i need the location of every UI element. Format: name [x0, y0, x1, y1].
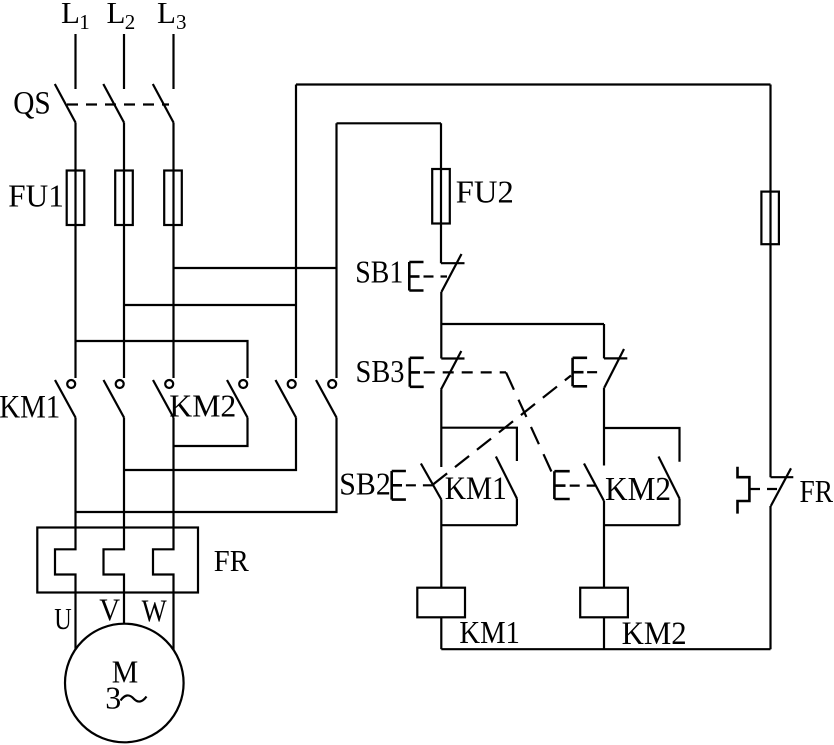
svg-text:V: V [99, 592, 120, 628]
svg-text:W: W [142, 594, 167, 629]
svg-text:KM1: KM1 [0, 389, 60, 425]
contactor KM2 main contact 1 [227, 380, 248, 418]
svg-text:FR: FR [800, 474, 834, 509]
wire L3 drop to QS [172, 34, 174, 89]
svg-text:KM2: KM2 [169, 387, 236, 423]
node V label [99, 592, 120, 628]
FR heater element W [153, 418, 174, 651]
svg-text:1: 1 [79, 10, 90, 34]
motor M circle [65, 624, 184, 743]
fuse FU2 [440, 123, 442, 263]
fuse FU1 element 3 [164, 171, 182, 226]
FU2 label [456, 174, 514, 209]
KM2 coil label [622, 616, 687, 652]
wire L2 tap to KM2 contact 2 (y305) [124, 304, 296, 306]
svg-text:SB3: SB3 [356, 353, 405, 389]
svg-text:3: 3 [176, 10, 187, 34]
wire SB3NO to coil KM2 [603, 501, 605, 588]
pushbutton SB2 NO contact [392, 464, 442, 500]
svg-text:2: 2 [125, 10, 136, 34]
coil KM2 [580, 588, 628, 618]
wire coil KM1 to bottom rail [440, 617, 442, 649]
wire control rail top (y84.5) [296, 83, 771, 85]
wire L1 tap to KM2 contact 1 (y341) [76, 341, 248, 378]
wire L3 QS to KM1 contact [172, 123, 174, 379]
SB2 linkage diagonal dashed [433, 376, 571, 485]
KM2 main label [169, 387, 236, 423]
node W label [142, 594, 167, 629]
KM1 aux label [445, 471, 507, 507]
svg-text:L: L [107, 0, 126, 30]
svg-text:KM1: KM1 [445, 471, 507, 507]
contactor KM2 main contact 2 [276, 380, 297, 418]
switch QS pole 3 blade [153, 84, 174, 123]
fuse FU1 element 2 [115, 171, 133, 226]
wire SB3 to SB2 (KM1 branch) [440, 390, 442, 468]
FR contact label [800, 474, 834, 509]
svg-text:KM2: KM2 [622, 616, 687, 652]
wire coil KM2 to bottom rail [603, 617, 605, 649]
svg-text:L: L [61, 0, 80, 30]
wire KM2 contact 1 output to W (y446) [174, 418, 248, 447]
SB1 label [355, 254, 403, 290]
pushbutton SB3 NO contact [554, 464, 604, 502]
wire L1 drop to QS [74, 34, 76, 89]
node L3 [157, 0, 187, 34]
wire control tap (y123.3) [337, 122, 442, 124]
SB2 label [339, 465, 391, 501]
wire SB1 to SB3 [440, 292, 442, 359]
pushbutton SB2 NC contact (right top) [573, 324, 628, 388]
svg-text:L: L [157, 0, 176, 30]
node U label [54, 602, 71, 637]
FR heater element V [104, 418, 125, 625]
relay FR NC contact [738, 467, 794, 514]
switch QS pole 1 blade [55, 84, 76, 123]
QS label [13, 86, 51, 122]
node L2 [107, 0, 136, 34]
KM1 coil label [459, 615, 520, 650]
thermal relay FR heater box [37, 528, 198, 593]
switch QS pole 2 blade [103, 84, 124, 123]
wire SB2NC to SB3NO (KM2 branch) [603, 388, 605, 466]
fuse FU1 element 1 [67, 171, 85, 226]
FR heater element U [55, 418, 76, 650]
node L1 [61, 0, 90, 34]
svg-text:KM1: KM1 [459, 615, 520, 650]
contactor KM1 main contact 1 [55, 380, 76, 418]
SB3 linkage diagonal dashed [506, 372, 553, 475]
KM2 auxiliary contact branch [604, 428, 680, 525]
pushbutton SB3 NC contact [410, 351, 506, 390]
wire KM2 contact 3 feeder [335, 123, 337, 378]
svg-text:KM2: KM2 [605, 471, 671, 508]
KM2 aux label [605, 471, 671, 508]
wire FR to bottom rail [769, 506, 771, 649]
svg-text:SB2: SB2 [339, 465, 391, 501]
svg-text:SB1: SB1 [355, 254, 403, 290]
wire SB2 to coil KM1 [440, 500, 442, 588]
right control rail [769, 85, 771, 478]
KM1 main label [0, 389, 60, 425]
svg-text:U: U [54, 602, 71, 637]
FU1 label [8, 178, 64, 214]
contactor KM1 main contact 2 [104, 380, 125, 418]
wire KM2 contact 2 output to V (y470) [124, 418, 296, 471]
wire L1 QS to KM1 contact [74, 123, 76, 379]
FR main label [214, 543, 249, 578]
svg-text:QS: QS [13, 86, 51, 122]
wire KM2 contact 2 feeder [295, 85, 297, 379]
svg-text:3: 3 [105, 680, 121, 716]
svg-text:FU1: FU1 [8, 178, 64, 214]
wire bottom rail [441, 648, 770, 650]
svg-text:FR: FR [214, 543, 249, 578]
fuse on right rail [761, 192, 779, 245]
contactor KM2 main contact 3 [316, 380, 337, 418]
KM1 auxiliary contact branch [441, 428, 517, 526]
SB3 label [356, 353, 405, 389]
pushbutton SB1 (NC stop) [409, 254, 464, 292]
contactor KM1 main contact 3 [153, 380, 174, 418]
wire branch to KM2 column (y324) [441, 323, 604, 325]
coil KM1 [417, 588, 465, 618]
QS linkage dashed [67, 103, 169, 105]
wire KM2 contact 3 output to U (y512) [76, 418, 337, 513]
wire L3 tap to KM2 contact 3 (y268) [174, 267, 337, 269]
wire L2 drop to QS [123, 34, 125, 89]
wire L2 QS to KM1 contact [123, 123, 125, 379]
svg-text:FU2: FU2 [456, 174, 514, 209]
motor M label [105, 653, 138, 715]
